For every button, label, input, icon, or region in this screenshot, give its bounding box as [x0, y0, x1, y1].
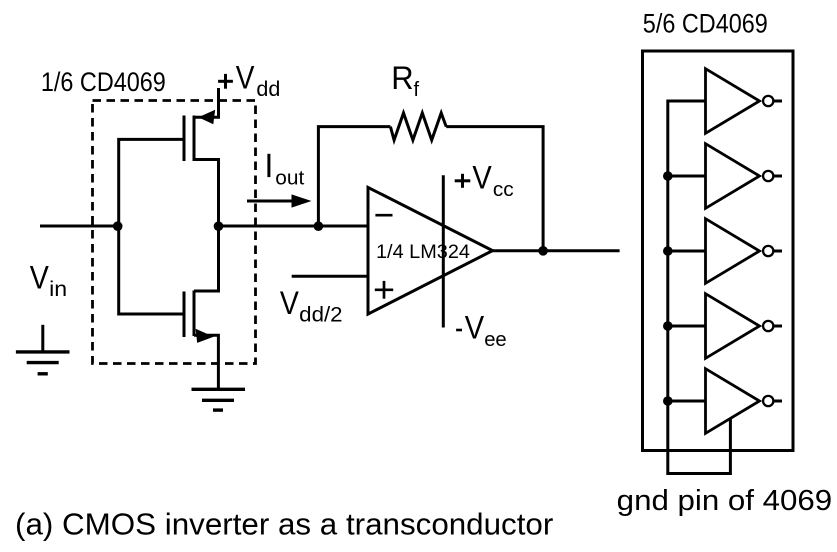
- inverter U2E: [706, 369, 760, 434]
- wire feedback top right: [446, 127, 543, 251]
- svg-text:in: in: [49, 276, 67, 301]
- wire NMOS drain: [194, 226, 219, 291]
- label Iout: [267, 154, 270, 177]
- ground under NMOS: [192, 388, 246, 391]
- box 5/6 CD4069: [643, 51, 794, 451]
- op-amp U1 triangle: [368, 187, 493, 314]
- node bus junction at U2D: [663, 321, 673, 331]
- svg-text:R: R: [391, 60, 413, 96]
- wire 4069 input bus and gnd pin loop: [668, 101, 731, 474]
- wire NMOS source to ground: [194, 335, 218, 389]
- wire U2E input stub: [668, 400, 706, 403]
- wire U2C input stub: [668, 250, 706, 253]
- transistor M2 (NMOS) gate bar: [183, 292, 186, 338]
- label +Vdd: [218, 80, 233, 83]
- svg-text:f: f: [414, 79, 420, 101]
- transistor M1 (PMOS) gate bar: [183, 116, 186, 162]
- svg-text:out: out: [275, 167, 304, 189]
- wire NMOS gate lead: [119, 226, 184, 314]
- svg-text:(a) CMOS inverter as a transco: (a) CMOS inverter as a transconductor: [15, 507, 553, 542]
- op-amp plus sign: [375, 288, 393, 291]
- label -Vee: [456, 329, 462, 332]
- svg-text:V: V: [236, 60, 255, 96]
- NMOS source arrow: [196, 329, 214, 343]
- wire inverter output to op-amp: [219, 225, 369, 228]
- wire non-inverting input: [292, 275, 368, 278]
- wire PMOS drain: [194, 160, 219, 227]
- wire U2D input stub: [668, 325, 706, 328]
- inverter U2D: [706, 294, 760, 359]
- inverter U2B: [706, 144, 760, 209]
- inverter U2C: [706, 219, 760, 284]
- svg-text:V: V: [280, 285, 299, 321]
- svg-text:V: V: [472, 159, 492, 195]
- svg-text:dd: dd: [256, 77, 280, 101]
- dashed box around CMOS inverter: [93, 101, 256, 364]
- wire PMOS gate lead: [119, 139, 184, 226]
- wire feedback left vertical: [318, 127, 390, 226]
- node bus junction at U2E: [663, 396, 673, 406]
- PMOS source arrow: [198, 110, 215, 125]
- svg-text:5/6 CD4069: 5/6 CD4069: [643, 9, 768, 39]
- svg-text:gnd pin of 4069: gnd pin of 4069: [617, 485, 833, 517]
- wire U2B input stub: [668, 175, 706, 178]
- node inverter output junction: [214, 221, 224, 231]
- node input junction: [113, 221, 123, 231]
- svg-text:cc: cc: [493, 178, 514, 201]
- node bus junction at U2C: [663, 246, 673, 256]
- node feedback junction: [314, 221, 324, 231]
- node bus junction at U2B: [663, 171, 673, 181]
- wire PMOS source to +Vdd: [194, 88, 219, 117]
- ground at input: [41, 325, 44, 352]
- svg-text:1/4 LM324: 1/4 LM324: [376, 241, 470, 263]
- svg-text:ee: ee: [484, 328, 507, 351]
- label +Vcc: [455, 179, 471, 182]
- wire input: [40, 225, 119, 228]
- wire power supply vertical: [442, 175, 445, 327]
- svg-text:1/6 CD4069: 1/6 CD4069: [41, 67, 166, 97]
- transistor M2 (NMOS) channel: [193, 291, 196, 337]
- arrow Iout: [247, 200, 295, 203]
- svg-text:dd/2: dd/2: [299, 303, 342, 326]
- svg-text:V: V: [30, 260, 49, 296]
- wire op-amp output: [493, 249, 620, 252]
- op-amp minus sign: [375, 214, 392, 217]
- node output junction: [538, 246, 548, 256]
- resistor Rf: [390, 113, 446, 140]
- inverter U2A: [706, 69, 760, 134]
- transistor M1 (PMOS) channel: [193, 116, 196, 162]
- svg-text:V: V: [465, 309, 485, 345]
